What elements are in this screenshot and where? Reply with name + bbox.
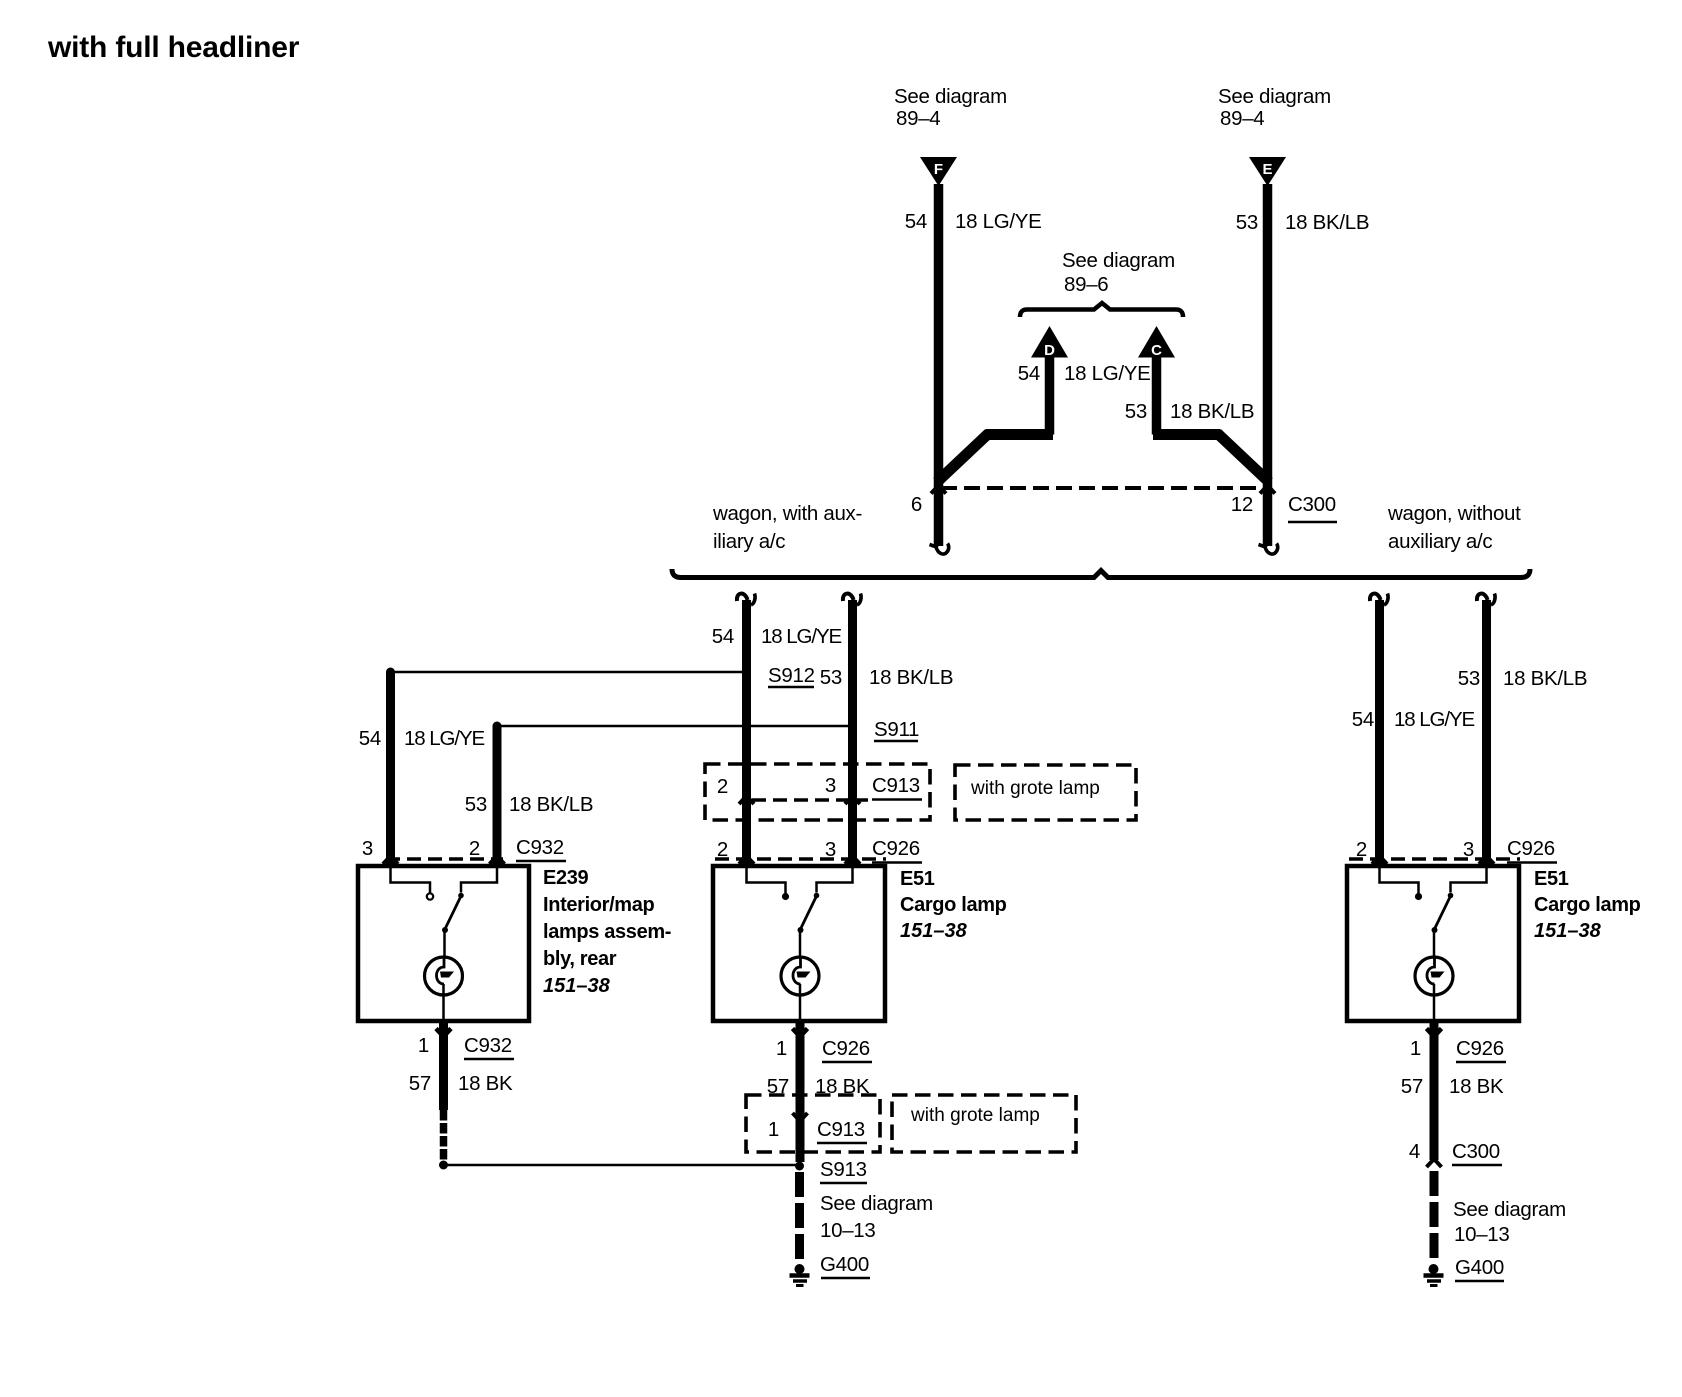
ground G400 (right) [1424,1264,1444,1286]
wire W1 top hook [737,594,755,606]
label 57 18 BK (right) [1401,1075,1504,1098]
wire F stub end squiggle [930,544,949,555]
cargo lamp E51 box (right) [1347,866,1519,1021]
label G400 (center) [820,1253,870,1278]
label E51 Cargo lamp 151-38 (center) [900,868,1007,942]
label pin 2 (C926 center) [717,838,728,861]
svg-text:See diagram: See diagram [1062,249,1175,272]
label S911 [874,718,919,741]
note see diagram 10-13 (center) [820,1192,933,1242]
label pin 4 C300 [1409,1140,1502,1165]
svg-text:18 LG/YE: 18 LG/YE [404,727,485,750]
node dot left of link wire [439,1161,448,1170]
pin 12 C300 chevron [1260,486,1275,494]
svg-text:54: 54 [1018,362,1040,385]
label C300 [1288,493,1337,522]
E51 switch blade (right) [1432,896,1451,957]
svg-text:with full headliner: with full headliner [47,31,300,64]
svg-text:3: 3 [825,838,836,861]
note wagon, without auxiliary a/c [1387,502,1521,553]
label pin 2 (C932) [469,837,480,860]
svg-text:G400: G400 [820,1253,869,1276]
svg-text:3: 3 [362,837,373,860]
note wagon, with auxiliary a/c [712,502,862,553]
label G400 (right) [1455,1256,1504,1281]
label S913 [820,1158,867,1183]
label pin 2 (C926 right) [1356,838,1367,861]
connector C926 dashed line (center) [715,857,886,861]
wire chain dashes to ground (center) [795,1172,804,1264]
label E51 Cargo lamp 151-38 (right) [1534,868,1641,942]
label C926 (right) [1507,837,1557,863]
svg-text:with grote lamp: with grote lamp [910,1105,1040,1126]
wire link to S913 [444,1164,800,1167]
label 54 18 LG/YE (F wire) [905,210,1042,233]
label 54 18 LG/YE (wire A) [359,727,485,750]
label pin 1 C926 (right) [1410,1037,1506,1062]
node dot top of wire B [493,722,502,731]
svg-text:89–4: 89–4 [896,107,940,130]
svg-text:3: 3 [825,774,836,797]
junction S912 [742,668,751,677]
wire 53 18 BK/LB from E [1263,184,1273,546]
svg-text:18 LG/YE: 18 LG/YE [955,210,1042,233]
connector C913 mating dashed line [752,798,868,802]
cargo lamp E51 box (center) [713,866,885,1021]
svg-text:18 BK: 18 BK [1449,1075,1504,1098]
svg-text:C300: C300 [1452,1140,1500,1163]
svg-text:C926: C926 [822,1037,870,1060]
svg-text:12: 12 [1231,493,1253,516]
svg-text:53: 53 [820,666,842,689]
wire link S912 to left column [391,671,747,674]
label pin 3 (C926 right) [1463,838,1474,861]
pin 3 C913 chevron on W2 [845,796,860,804]
pin 2 C926 chevron on W3 [1372,856,1387,864]
E51 bulb (center) [781,957,819,1021]
label pin 3 (C926 center) [825,838,836,861]
note see diagram 89-6 [1062,249,1175,296]
E239 switch blade [442,896,461,957]
label 53 18 BK/LB (W2) [820,666,953,689]
label 54 18 LG/YE (W3) [1352,708,1475,731]
svg-text:10–13: 10–13 [820,1219,876,1242]
svg-text:E51: E51 [1534,868,1569,890]
E51 pin 2 internal lead (right) [1380,868,1423,900]
svg-text:2: 2 [717,775,728,798]
svg-text:2: 2 [717,838,728,861]
arrow into C926 pin 1 (center) [793,1029,808,1037]
E239 pin 2 internal lead [458,868,497,898]
label 57 18 BK (center) [767,1075,870,1098]
label pin 1 C932 [418,1034,514,1059]
node dot top of wire A [386,668,395,677]
connector C913 dashed box [705,764,930,820]
pin 3 C926 chevron on W2 [845,856,860,864]
wire 57 18 BK below E51 (right) [1430,1021,1439,1160]
svg-text:S911: S911 [874,718,919,741]
svg-text:C913: C913 [872,774,920,797]
pin 1 C913 chevron [793,1113,808,1121]
label pin 2 (C913) [717,775,728,798]
svg-text:10–13: 10–13 [1454,1223,1510,1246]
svg-text:E51: E51 [900,868,935,890]
wire B 53 18 BK/LB (left column) [493,726,502,864]
svg-text:E: E [1262,161,1272,178]
label pin 3 (C913) [825,774,836,797]
label S912 [768,664,815,687]
brace over D and C [1020,303,1183,317]
label 53 18 BK/LB (W4) [1458,667,1587,690]
svg-text:G400: G400 [1455,1256,1504,1279]
wire 57 18 BK below E51 (center) [796,1021,805,1110]
svg-text:53: 53 [1458,667,1480,690]
label pin 12 [1231,493,1253,516]
svg-text:C926: C926 [1456,1037,1504,1060]
svg-text:C926: C926 [1507,837,1555,860]
svg-text:C932: C932 [464,1034,512,1057]
wire through C913 lower [796,1110,805,1162]
svg-text:151–38: 151–38 [1534,920,1602,942]
svg-text:54: 54 [712,625,734,648]
svg-text:wagon, without: wagon, without [1387,502,1521,525]
note with grote lamp dashed box (upper) [955,765,1136,820]
label E239 Interior/map lamps assembly, rear 151-38 [543,867,671,997]
svg-text:1: 1 [418,1034,429,1057]
connector D (triangle) [1031,326,1068,359]
svg-text:iliary a/c: iliary a/c [713,530,785,553]
svg-text:Cargo lamp: Cargo lamp [1534,894,1641,916]
note see diagram 89-4 (left) [894,85,1007,130]
E51 pin 3 internal lead (center) [814,868,853,898]
pin 4 C300 chevron (right) [1427,1159,1442,1167]
E51 switch blade (center) [798,896,817,957]
svg-text:2: 2 [469,837,480,860]
label pin 3 (C932) [362,837,373,860]
connector C300 dashed line [941,486,1266,490]
note see diagram 89-4 (right) [1218,85,1331,130]
wire E stub end squiggle [1259,544,1278,555]
svg-text:18 BK/LB: 18 BK/LB [1170,400,1254,423]
junction S913 [795,1162,804,1171]
svg-text:lamps assem-: lamps assem- [543,921,671,943]
svg-text:Cargo lamp: Cargo lamp [900,894,1007,916]
svg-text:Interior/map: Interior/map [543,894,655,916]
wire W2 53 18 BK/LB (center column) [848,600,857,864]
label pin 1 (C913 lower) [768,1118,779,1141]
label C913 [872,774,922,800]
label 54 18 LG/YE (W1) [712,625,842,648]
E239 pin 3 internal lead [391,868,434,900]
svg-text:57: 57 [409,1072,431,1095]
arrow into C932 pin 1 [436,1029,451,1037]
note see diagram 10-13 (right) [1453,1198,1566,1246]
wire A 54 18 LG/YE (left column) [386,672,395,864]
wire W4 top hook [1477,594,1495,606]
E51 pin 2 internal lead (center) [747,868,790,900]
svg-text:1: 1 [1410,1037,1421,1060]
svg-text:2: 2 [1356,838,1367,861]
connector C (triangle) [1138,326,1175,359]
label 53 18 BK/LB (E wire) [1236,211,1369,234]
wire link S911 to left column [497,725,853,728]
title [47,31,300,64]
label 53 18 BK/LB (C wire) [1125,400,1254,423]
pin 2 C926 chevron on W1 [739,856,754,864]
svg-text:See diagram: See diagram [1453,1198,1566,1221]
connector C913 dashed box (lower) [746,1095,880,1152]
pin 3 C926 chevron on W4 [1479,856,1494,864]
label 57 18 BK (left) [409,1072,513,1095]
svg-text:53: 53 [465,793,487,816]
wire 54 18 LG/YE from F [934,184,944,546]
pin 6 C300 chevron [931,486,946,494]
wire W3 54 18 LG/YE (right column) [1375,600,1384,864]
svg-text:18 BK/LB: 18 BK/LB [869,666,953,689]
connector E (triangle) [1249,157,1286,186]
label C926 (center) [872,837,922,863]
note with grote lamp dashed box (lower) [892,1095,1076,1152]
options split bracket [672,569,1530,578]
svg-text:53: 53 [1125,400,1147,423]
wire from C with jog to E wire [1153,356,1269,482]
junction S911 [848,722,857,731]
E239 bulb [425,957,463,1021]
wire W2 top hook [843,594,861,606]
svg-text:18 BK/LB: 18 BK/LB [1285,211,1369,234]
svg-text:auxiliary a/c: auxiliary a/c [1388,530,1492,553]
label pin 6 [911,493,922,516]
svg-text:1: 1 [776,1037,787,1060]
svg-text:4: 4 [1409,1140,1420,1163]
svg-text:S912: S912 [768,664,815,687]
pin 2 C932 chevron on wire B [490,856,505,864]
svg-text:54: 54 [905,210,927,233]
svg-text:C913: C913 [817,1118,865,1141]
pin 2 C913 chevron on W1 [739,796,754,804]
connector C932 dashed line [386,857,503,861]
svg-text:18 LG/YE: 18 LG/YE [1394,708,1475,731]
svg-text:57: 57 [1401,1075,1423,1098]
connector F (triangle) [920,157,957,186]
svg-text:bly, rear: bly, rear [543,948,617,970]
wire W4 53 18 BK/LB (right column) [1482,600,1491,864]
wire chain dashes to ground (right) [1430,1171,1439,1264]
svg-text:6: 6 [911,493,922,516]
label C913 (lower) [817,1118,867,1143]
wire from D with jog to F wire [937,356,1053,482]
wire W3 top hook [1370,594,1388,606]
svg-text:S913: S913 [820,1158,867,1181]
svg-text:1: 1 [768,1118,779,1141]
E51 pin 3 internal lead (right) [1448,868,1487,898]
svg-text:F: F [934,161,943,178]
wire W1 54 18 LG/YE (center column) [742,600,751,864]
wire 57 18 BK below E239 [439,1021,448,1110]
svg-text:3: 3 [1463,838,1474,861]
svg-text:C926: C926 [872,837,920,860]
label pin 1 C926 (center) [776,1037,872,1062]
label 54 18 LG/YE (D wire) [1018,362,1151,385]
lamp assembly E239 box [358,866,529,1021]
pin 3 C932 chevron on wire A [383,856,398,864]
svg-text:18 BK/LB: 18 BK/LB [1503,667,1587,690]
E51 bulb (right) [1415,957,1453,1021]
svg-text:18 LG/YE: 18 LG/YE [1064,362,1151,385]
svg-text:151–38: 151–38 [543,975,611,997]
svg-text:See diagram: See diagram [820,1192,933,1215]
svg-text:wagon, with aux-: wagon, with aux- [712,502,862,525]
svg-text:E239: E239 [543,867,589,889]
svg-text:89–6: 89–6 [1064,273,1108,296]
svg-text:54: 54 [1352,708,1374,731]
svg-text:with grote lamp: with grote lamp [970,778,1100,799]
svg-text:C300: C300 [1288,493,1336,516]
svg-text:151–38: 151–38 [900,920,968,942]
svg-text:See diagram: See diagram [1218,85,1331,108]
svg-text:53: 53 [1236,211,1258,234]
arrow into C926 pin 1 (right) [1427,1029,1442,1037]
ground G400 (center) [790,1264,810,1286]
svg-text:18 LG/YE: 18 LG/YE [761,625,842,648]
label 53 18 BK/LB (wire B) [465,793,593,816]
svg-text:54: 54 [359,727,381,750]
label C932 [516,836,566,861]
svg-text:See diagram: See diagram [894,85,1007,108]
svg-text:89–4: 89–4 [1220,107,1264,130]
svg-text:18 BK: 18 BK [458,1072,513,1095]
wire dashes to junction [440,1110,448,1161]
svg-text:C932: C932 [516,836,564,859]
connector C926 dashed line (right) [1349,857,1520,861]
svg-text:18 BK/LB: 18 BK/LB [509,793,593,816]
